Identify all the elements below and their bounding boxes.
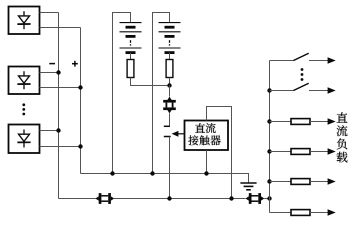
junction battery string 2 / positive bus: [150, 171, 154, 175]
fuse link connector FU3 (horizontal, on negative bus): [246, 193, 265, 204]
junction battery string 1 / positive bus: [110, 171, 114, 175]
contactor main contact K1: [164, 126, 171, 136]
wire module1 to plus rail: [40, 27, 81, 29]
switch feeder branch 2: [270, 83, 336, 93]
plus rail (vertical): [80, 28, 82, 174]
junction module3/plus rail: [78, 144, 82, 148]
wire module3 to plus rail: [40, 146, 81, 148]
wire node A to fuse link: [169, 86, 171, 97]
wire module3 to minus rail: [40, 130, 59, 132]
fuse link connector FU1 (vertical): [163, 97, 176, 114]
junction contact wire / negative bus: [167, 196, 171, 200]
resistor R1: [127, 60, 134, 78]
label minus: [49, 63, 55, 65]
node A junction (battery strings common): [167, 83, 171, 87]
ground symbol: [240, 183, 256, 190]
battery string 2 lead to resistor: [169, 53, 171, 60]
junction module2/plus rail: [78, 85, 82, 89]
wire contact to negative bus: [169, 137, 171, 199]
fuse link connector FU2 (horizontal, on negative bus): [95, 193, 114, 204]
negative horizontal bus segment 2: [114, 198, 246, 200]
junction switch feeder 2: [267, 88, 271, 92]
label 直流负载 (DC load, vertical): [337, 112, 348, 162]
contactor callout arrow: [172, 131, 185, 137]
junction negative bus / load bus: [267, 196, 271, 200]
junction contactor coil / positive bus: [204, 171, 208, 175]
load feeder branch 3 (fuse): [270, 178, 336, 184]
wire R2 to node A: [169, 78, 171, 86]
battery string 2 loop wire (top bar + left vertical down to positive bus): [153, 13, 170, 174]
load feeder bus (vertical): [269, 61, 271, 213]
wire module2 to plus rail: [40, 87, 81, 89]
junction load feeder 2: [267, 149, 271, 153]
junction module3/minus rail: [56, 128, 60, 132]
rectifier module 3 (diode box): [9, 125, 40, 154]
wire fuse link to contactor contact: [169, 114, 171, 127]
resistor R2: [166, 60, 173, 78]
ground stem: [248, 174, 250, 184]
junction load feeder 3: [267, 179, 271, 183]
contactor coil wire to positive bus: [206, 150, 208, 174]
label plus: [72, 61, 78, 67]
minus rail (vertical): [58, 13, 60, 199]
junction coil wire / negative bus: [229, 196, 233, 200]
ellipsis between module 2 and module 3: [22, 103, 25, 115]
load feeder branch 1 (fuse): [270, 118, 336, 124]
contactor box (直流接触器): [185, 121, 229, 151]
switch feeder branch 1: [270, 53, 336, 63]
ellipsis between switch feeders: [301, 68, 304, 81]
load feeder branch 2 (fuse): [270, 148, 336, 154]
rectifier module 2 (diode box): [9, 67, 40, 95]
battery string 1 lead to resistor: [130, 53, 132, 60]
junction load feeder 1: [267, 119, 271, 123]
battery string 1 cells: [120, 23, 142, 53]
rectifier module 1 (diode box): [9, 7, 40, 35]
positive horizontal bus: [81, 173, 250, 175]
battery string 1 loop wire (top bar + left vertical down to positive bus): [113, 13, 131, 174]
wire module1 to minus rail: [40, 12, 59, 14]
battery string 2 cells: [159, 23, 181, 53]
load feeder branch 4 (fuse, bottom): [270, 209, 336, 215]
negative bus segment 3 to load bus: [264, 198, 269, 200]
wire module2 to minus rail: [40, 72, 59, 74]
junction module2/minus rail: [56, 70, 60, 74]
contactor coil wire over box to negative bus: [207, 107, 232, 199]
negative horizontal bus segment 1: [59, 198, 96, 200]
wire R1 to node A: [131, 78, 170, 86]
